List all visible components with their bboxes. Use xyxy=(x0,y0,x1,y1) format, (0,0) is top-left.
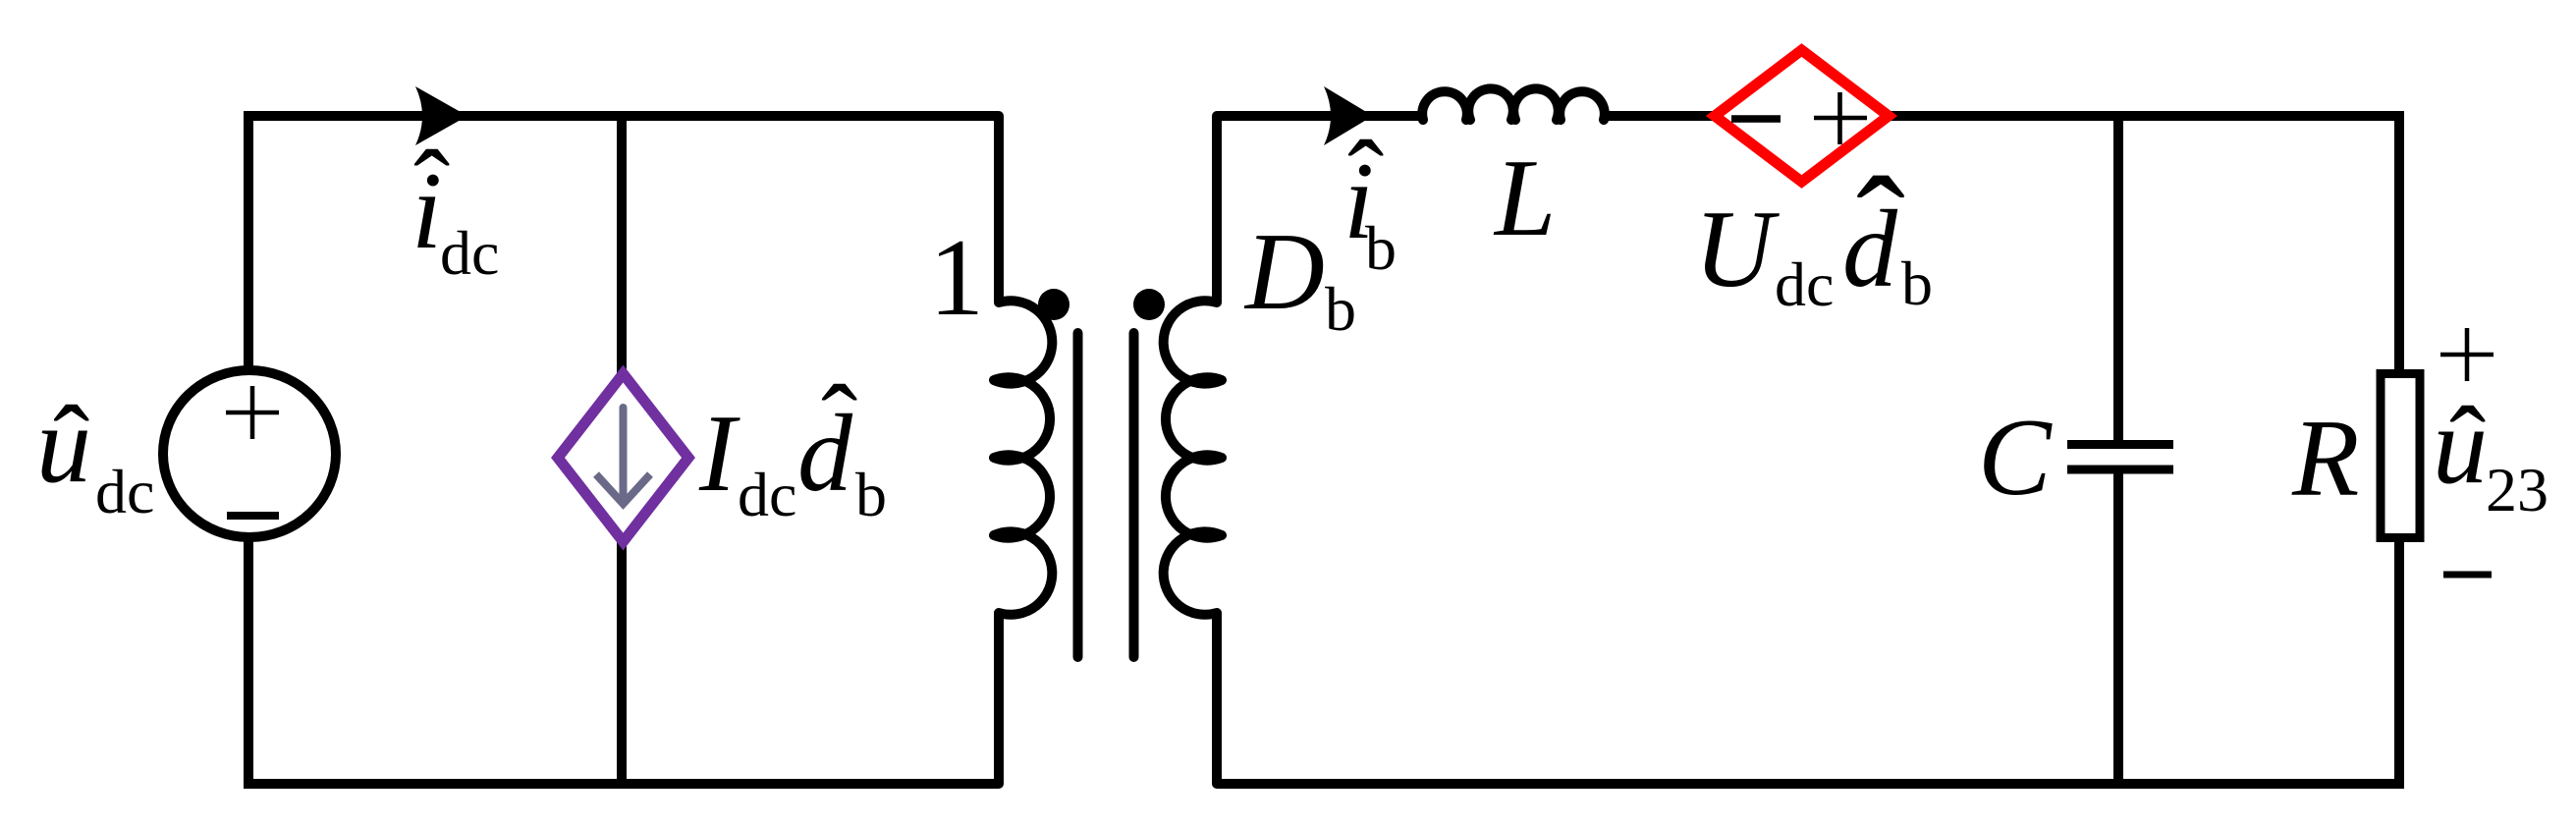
svg-text:dc: dc xyxy=(440,218,499,288)
svg-text:C: C xyxy=(1978,397,2053,519)
svg-text:dc: dc xyxy=(95,457,154,526)
svg-text:ˆ: ˆ xyxy=(53,384,89,506)
svg-text:ˆ: ˆ xyxy=(821,363,857,485)
svg-text:dc: dc xyxy=(1775,249,1834,319)
svg-text:D: D xyxy=(1243,211,1325,333)
svg-text:R: R xyxy=(2291,398,2359,520)
svg-text:b: b xyxy=(1901,248,1933,318)
svg-text:L: L xyxy=(1493,138,1556,259)
svg-text:ˆ: ˆ xyxy=(2449,385,2486,507)
svg-text:b: b xyxy=(1365,213,1397,283)
svg-text:1: 1 xyxy=(929,217,984,339)
svg-text:I: I xyxy=(698,393,740,515)
svg-text:dc: dc xyxy=(738,460,796,529)
svg-text:b: b xyxy=(855,460,887,529)
svg-text:ˆ: ˆ xyxy=(1856,147,1905,310)
svg-text:b: b xyxy=(1325,274,1356,344)
svg-text:U: U xyxy=(1694,189,1780,310)
svg-text:23: 23 xyxy=(2486,455,2549,524)
